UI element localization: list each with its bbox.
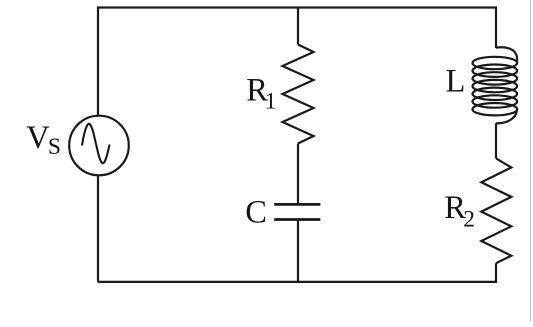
inductor L ring 5 xyxy=(473,88,518,100)
wire bottom rail xyxy=(98,263,496,282)
inductor L ring 1 xyxy=(473,57,518,69)
inductor L ring 6 xyxy=(473,95,518,107)
resistor R1 xyxy=(283,45,314,144)
inductor L ring 4 xyxy=(473,80,518,92)
sine symbol xyxy=(82,124,110,164)
label VS xyxy=(26,120,61,160)
voltage source VS xyxy=(69,116,129,176)
svg-text:L: L xyxy=(446,63,466,99)
label R2 xyxy=(444,190,475,232)
svg-text:V: V xyxy=(26,120,50,156)
wire middle top xyxy=(297,8,299,45)
svg-text:S: S xyxy=(48,134,61,160)
capacitor C bottom plate xyxy=(274,218,320,221)
inductor L ring 3 xyxy=(473,72,518,84)
wire C to bottom rail xyxy=(297,220,299,282)
svg-text:C: C xyxy=(245,195,267,231)
inductor L bottom hook xyxy=(496,109,517,123)
page border line xyxy=(530,0,532,321)
svg-text:2: 2 xyxy=(463,207,475,233)
wire L to R2 xyxy=(495,123,497,158)
label C xyxy=(245,195,267,231)
svg-text:1: 1 xyxy=(265,88,277,114)
wire left lower xyxy=(97,176,99,282)
inductor L ring 7 xyxy=(473,103,518,115)
capacitor C top plate xyxy=(274,203,320,206)
inductor L ring 2 xyxy=(473,65,518,77)
wire top and side rails xyxy=(98,8,496,116)
label L xyxy=(446,63,466,99)
resistor R2 xyxy=(481,158,511,263)
label R1 xyxy=(246,73,276,115)
wire R1 to C xyxy=(297,144,299,205)
inductor L top hook xyxy=(496,47,517,63)
